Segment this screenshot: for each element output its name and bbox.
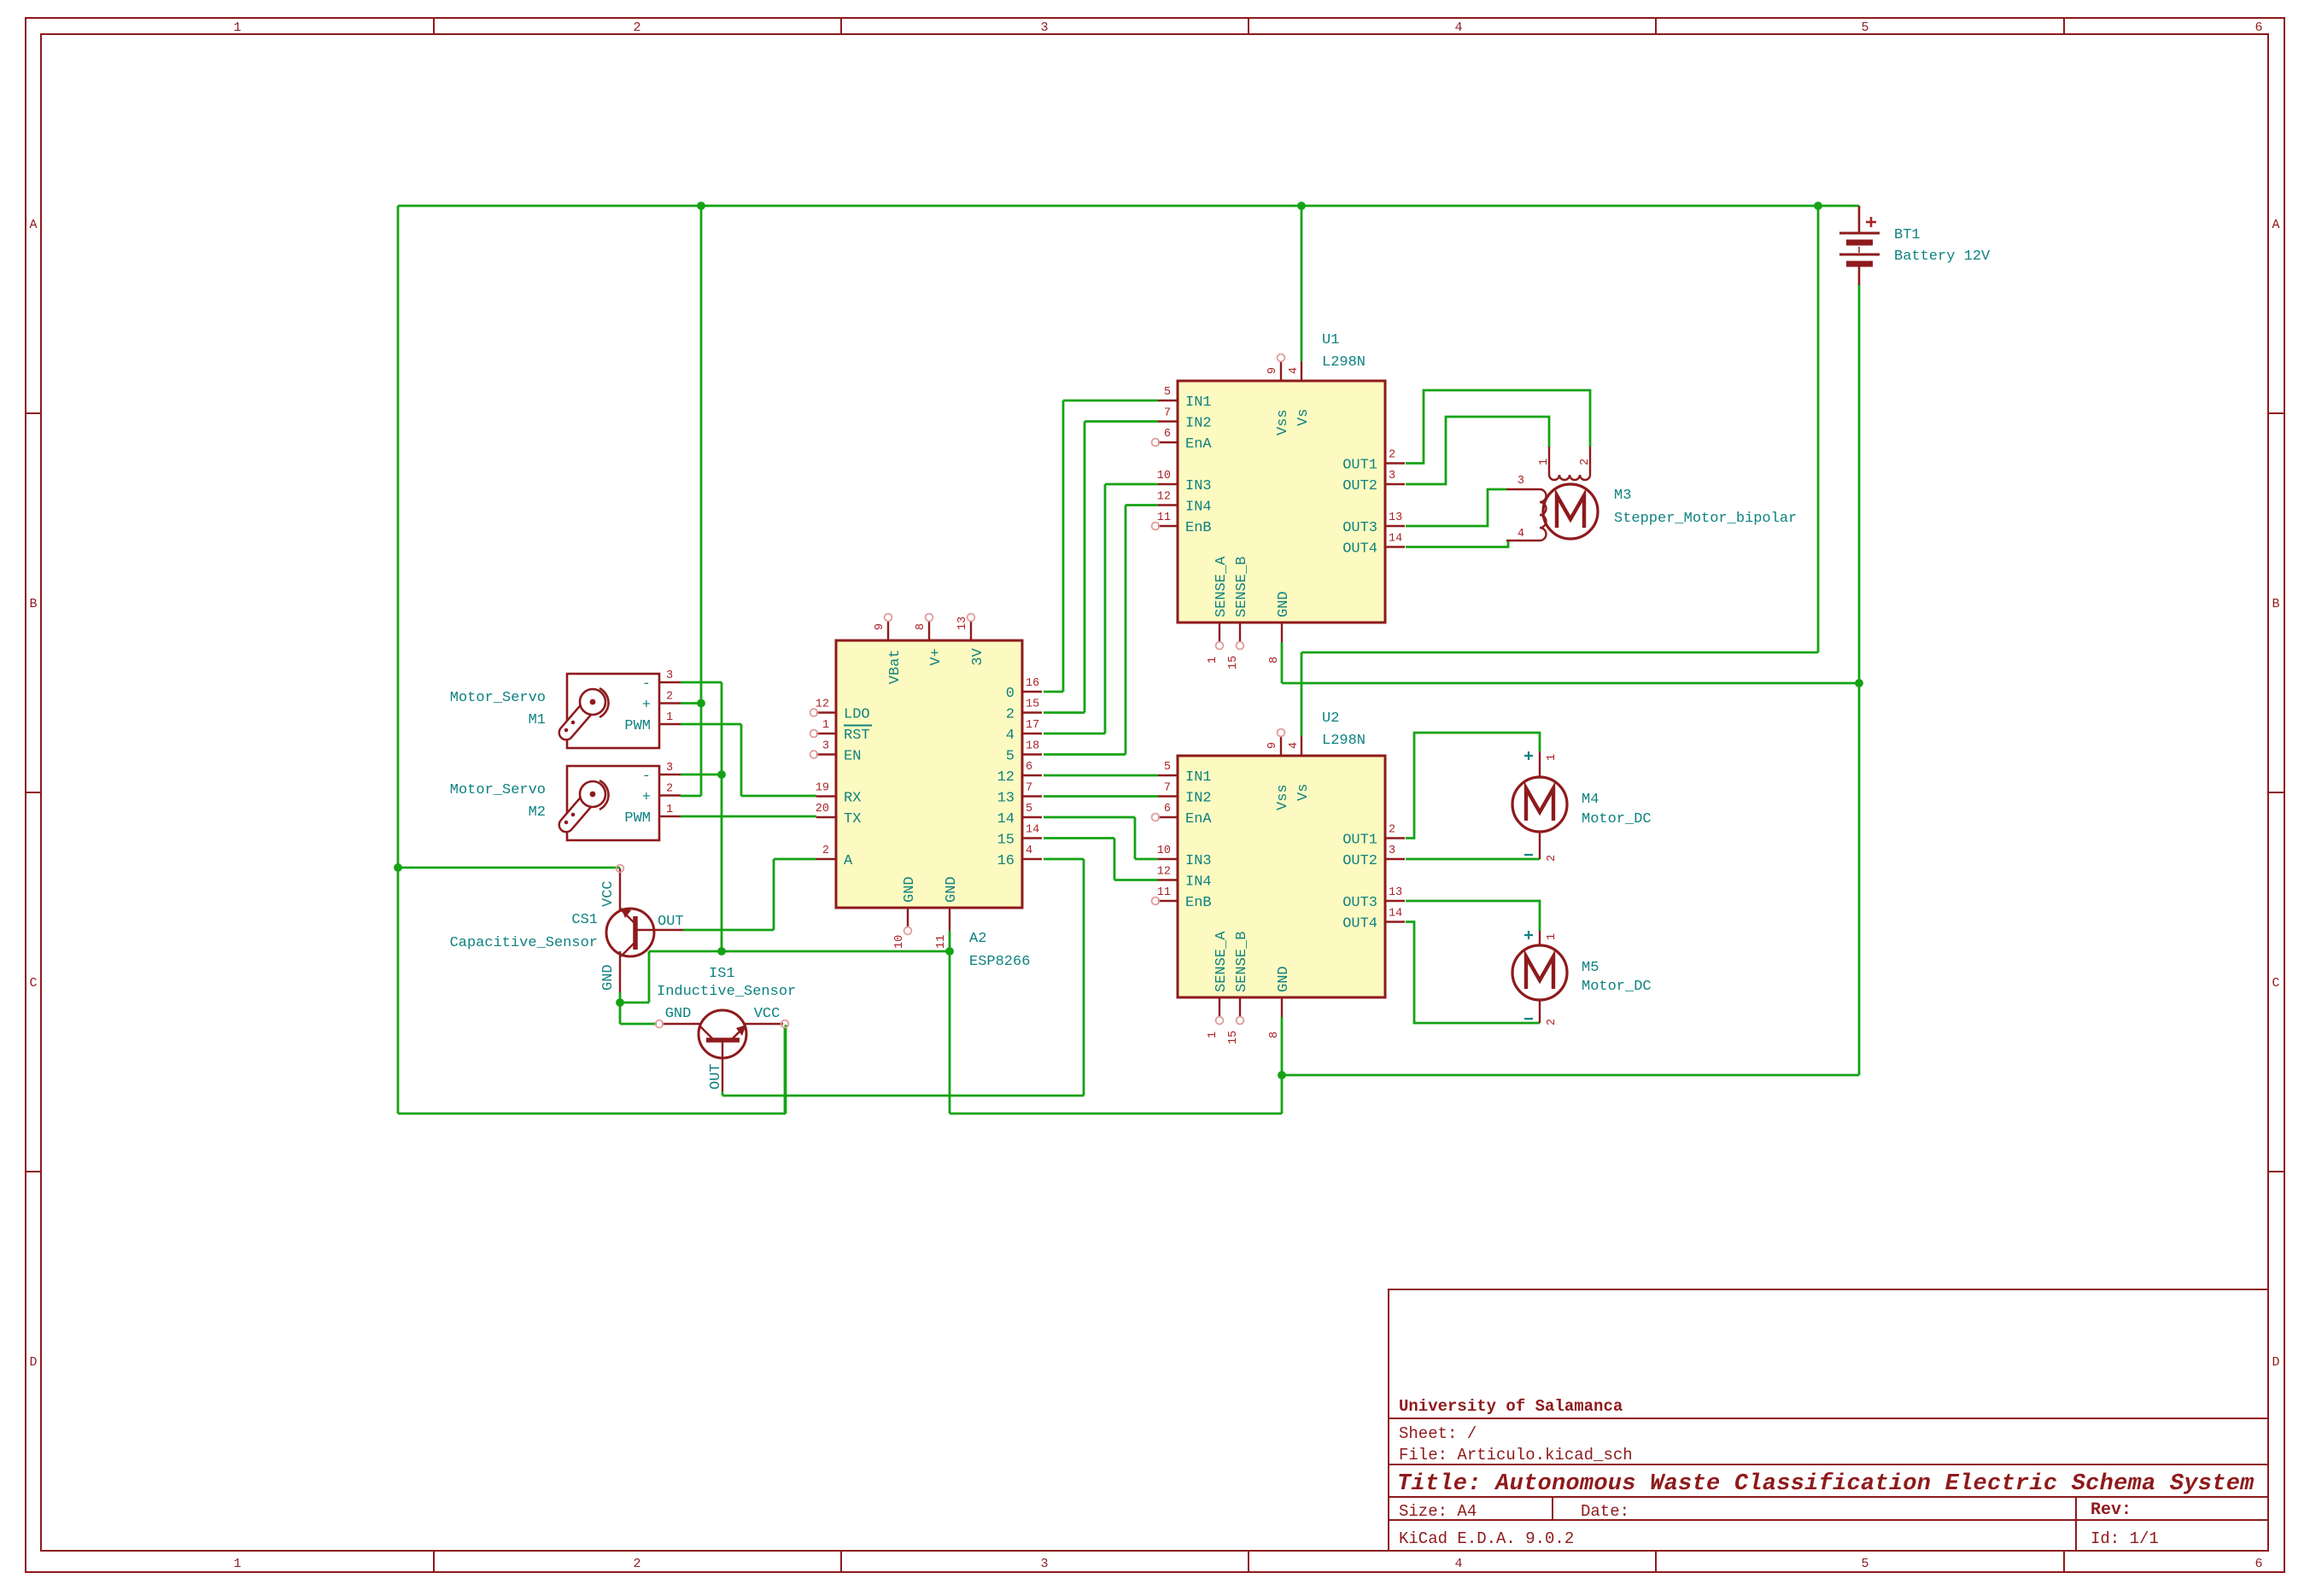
svg-text:L298N: L298N [1322, 733, 1366, 749]
frame column tick top [840, 18, 842, 34]
IS1 arrow [736, 1025, 746, 1036]
svg-text:6: 6 [1026, 761, 1032, 774]
U2 pin 7 IN2 stub [1158, 795, 1178, 797]
svg-text:Capacitive_Sensor: Capacitive_Sensor [450, 935, 598, 951]
IS1 GND pin [662, 1023, 700, 1025]
svg-text:GND: GND [1276, 966, 1292, 992]
CS1 GND pin [619, 951, 621, 992]
A2 pin 9 VBat stub [887, 621, 889, 640]
svg-text:+: + [642, 790, 651, 806]
svg-text:IS1: IS1 [709, 966, 735, 982]
battery BT1 plate long 2 [1839, 254, 1880, 256]
svg-text:OUT3: OUT3 [1342, 520, 1377, 536]
svg-text:Motor_Servo: Motor_Servo [450, 690, 546, 706]
servo M1 horn arm [566, 702, 593, 733]
U1 pin 1 SENSE_A stub [1219, 623, 1220, 642]
A2 pin 18 GPIO5 stub [1022, 753, 1042, 755]
A2 pin 8 V+ stub [928, 621, 930, 640]
A2 pin 7 GPIO13 stub [1022, 795, 1042, 797]
U2 pin 4 Vs stub [1301, 736, 1302, 756]
wire M2 pin2 to VCC [681, 795, 701, 798]
svg-text:V+: V+ [928, 648, 944, 665]
svg-text:L298N: L298N [1322, 354, 1366, 371]
battery BT1 plate short 2 [1846, 261, 1873, 267]
CS1 VCC pin [619, 868, 621, 910]
wire ESP GND riser [949, 931, 951, 1114]
frame column tick top [433, 18, 435, 34]
wire U2 OUT4 to M5 minus a [1406, 922, 1540, 1024]
U2 pin 6 EnA stub [1158, 816, 1178, 818]
wire M2 PWM to ESP TX [681, 816, 816, 818]
CS1 arrow [621, 908, 631, 918]
IS1 right diagonal [731, 1026, 746, 1040]
svg-text:CS1: CS1 [571, 912, 598, 928]
U1 pin 8 GND stub [1281, 623, 1283, 642]
svg-text:OUT1: OUT1 [1342, 833, 1377, 849]
svg-text:GND: GND [944, 876, 960, 903]
title block separator under file [1389, 1464, 2268, 1465]
wire ESP GPIO14 to U2 IN3 a [1044, 816, 1135, 819]
svg-text:5: 5 [1006, 749, 1015, 765]
title block separator under title [1389, 1496, 2268, 1498]
svg-text:OUT2: OUT2 [1342, 853, 1377, 869]
battery BT1 positive stub [1858, 206, 1861, 232]
U1 pin 7 IN2 stub [1158, 420, 1178, 422]
U1 pin EnA unconnected end [1152, 439, 1160, 447]
svg-text:13: 13 [997, 791, 1015, 807]
svg-text:SENSE_A: SENSE_A [1213, 931, 1230, 992]
wire U2 Vs horizontal [1301, 652, 1818, 654]
wire IS1 VCC drop [784, 1028, 787, 1114]
A2 pin 9 unconnected end [885, 614, 892, 622]
A2 pin 13 unconnected end [968, 614, 975, 622]
svg-text:RX: RX [844, 791, 861, 807]
servo M1 horn hole 1 [564, 728, 569, 733]
svg-text:2: 2 [1389, 449, 1395, 462]
wire battery negative vertical [1858, 285, 1861, 1075]
svg-text:U2: U2 [1322, 710, 1339, 727]
wire U2 GND branch to battery negative [1282, 1074, 1859, 1077]
svg-text:3: 3 [666, 669, 673, 682]
junction ESP GND / GND rail [945, 947, 954, 956]
wire CS1 OUT horizontal [683, 929, 774, 932]
svg-text:9: 9 [1266, 742, 1279, 749]
wire VCC riser to IS1 [785, 1025, 787, 1114]
svg-text:SENSE_B: SENSE_B [1234, 557, 1250, 617]
frame row tick left [26, 792, 41, 793]
wire ESP GPIO5 to U1 IN4 b [1125, 506, 1127, 755]
motor M5 minus sign [1524, 1018, 1533, 1020]
servo M2 horn crescent [599, 780, 609, 810]
U2 pin 11 EnB stub [1158, 900, 1178, 902]
svg-text:0: 0 [1006, 686, 1015, 702]
svg-text:Battery 12V: Battery 12V [1894, 248, 1991, 265]
svg-text:VCC: VCC [754, 1006, 781, 1022]
svg-text:2: 2 [1546, 855, 1559, 862]
svg-text:ESP8266: ESP8266 [969, 954, 1030, 970]
wire CS1 OUT to ESP A [774, 858, 816, 861]
svg-text:1: 1 [233, 20, 241, 35]
CS1 base bar [633, 916, 638, 950]
svg-text:GND: GND [902, 876, 918, 903]
svg-text:12: 12 [816, 699, 829, 711]
svg-text:5: 5 [1164, 761, 1171, 774]
svg-text:TX: TX [844, 811, 861, 827]
U2 pin 1 SENSE_A stub [1219, 997, 1220, 1017]
motor M5 circle [1512, 945, 1567, 1000]
svg-text:10: 10 [1157, 470, 1171, 482]
U1 pin 3 OUT2 stub [1385, 483, 1405, 485]
svg-text:5: 5 [1861, 1557, 1868, 1571]
svg-text:3: 3 [822, 740, 829, 753]
svg-text:13: 13 [1389, 512, 1402, 524]
junction U1 Vs / top rail [1297, 202, 1306, 210]
A2 pin 19 RX stub [816, 795, 836, 797]
wire ESP GPIO5 to U1 IN4 c [1126, 504, 1158, 506]
stepper M3 coil B line 4 [1506, 540, 1540, 541]
svg-text:VBat: VBat [887, 649, 904, 684]
svg-text:M1: M1 [529, 712, 546, 728]
frame column tick bottom [433, 1551, 435, 1572]
battery BT1 plate short 1 [1846, 240, 1873, 246]
svg-text:17: 17 [1026, 719, 1039, 732]
svg-text:A: A [29, 218, 37, 232]
svg-text:LDO: LDO [844, 707, 870, 723]
battery BT1 negative stub [1858, 266, 1861, 285]
svg-text:9: 9 [1266, 367, 1279, 374]
svg-text:PWM: PWM [624, 718, 651, 734]
title block separator under size/date [1389, 1519, 2268, 1521]
frame column tick top [1248, 18, 1249, 34]
wire ESP GPIO5 to U1 IN4 a [1044, 753, 1126, 756]
svg-text:RST: RST [844, 728, 870, 744]
svg-text:A2: A2 [969, 931, 986, 947]
driver U2 L298N body [1178, 756, 1385, 997]
stepper M3 coil A line 2 [1589, 447, 1591, 475]
motor M4 minus sign [1524, 854, 1533, 856]
motor M4 circle [1512, 777, 1567, 832]
svg-text:University of Salamanca: University of Salamanca [1399, 1397, 1623, 1416]
junction CS1 GND [616, 998, 624, 1007]
wire U2 GND drop [1281, 1017, 1284, 1114]
servo M2 pin 1 stub [659, 816, 681, 817]
svg-text:IN4: IN4 [1185, 874, 1212, 891]
svg-text:IN3: IN3 [1185, 853, 1212, 869]
svg-text:C: C [29, 976, 37, 991]
U1 pin 9 Vss stub [1280, 361, 1282, 381]
servo M2 horn hole 2 [571, 813, 576, 817]
wire U1 OUT4 to M3 pin4 [1406, 541, 1508, 547]
svg-text:2: 2 [1546, 1019, 1559, 1026]
svg-text:2: 2 [1579, 459, 1592, 465]
A2 pin 2 A stub [816, 858, 836, 860]
U2 pin 10 IN3 stub [1158, 858, 1178, 860]
title block separator under company [1389, 1418, 2268, 1419]
junction M2 minus [717, 770, 726, 779]
frame column tick top [2063, 18, 2065, 34]
A2 pin 10 unconnected end [904, 927, 912, 935]
junction U1 GND / battery negative [1855, 679, 1863, 687]
wire ESP GPIO0 to U1 IN1 b [1062, 400, 1065, 692]
wire U1 OUT2 to M3 coil1 a [1406, 417, 1549, 484]
U2 pin 9 unconnected end [1278, 729, 1285, 737]
svg-text:1: 1 [1538, 459, 1551, 465]
motor M4 plus pin [1539, 751, 1541, 777]
svg-text:1: 1 [666, 711, 673, 724]
wire M1 pin3 stub [681, 681, 722, 684]
svg-text:IN2: IN2 [1185, 791, 1212, 807]
frame column tick top [1655, 18, 1657, 34]
frame row tick right [2268, 1171, 2284, 1172]
wire U1 GND drop [1281, 642, 1284, 683]
U1 pin EnB unconnected end [1152, 523, 1160, 530]
battery BT1 plus sign [1866, 221, 1876, 224]
A2 pin LDO unconnected end [810, 709, 818, 716]
wire CS1 GND link [620, 1002, 649, 1004]
svg-text:M2: M2 [529, 804, 546, 821]
U1 pin 12 IN4 stub [1158, 504, 1178, 506]
wire VBUS top rail [398, 205, 1859, 208]
wire ESP GPIO15 to U2 IN4 c [1114, 879, 1158, 881]
U2 pin 15 SENSE_B stub [1239, 997, 1241, 1017]
battery BT1 plate long 1 [1839, 232, 1880, 235]
A2 pin 4 GPIO16 stub [1022, 858, 1042, 860]
U2 pin EnB unconnected end [1152, 897, 1160, 905]
A2 pin 3 EN stub [816, 753, 836, 755]
svg-text:IN2: IN2 [1185, 416, 1212, 432]
wire M4 minus drop [1539, 858, 1541, 859]
svg-text:3: 3 [1389, 470, 1395, 482]
svg-text:Motor_Servo: Motor_Servo [450, 782, 546, 798]
wire CS1 GND down to IS1 [619, 1003, 622, 1024]
A2 pin 10 GND stub [907, 908, 909, 927]
frame column tick bottom [840, 1551, 842, 1572]
wire GND to IS1 GND pin [620, 1023, 657, 1026]
svg-text:14: 14 [997, 811, 1015, 827]
wire U1 GND to battery negative [1282, 682, 1859, 685]
stepper M3 coil A bumps [1549, 475, 1590, 480]
wire U2 OUT3 to M5 plus [1406, 901, 1540, 931]
svg-text:Vss: Vss [1275, 784, 1291, 810]
wire ESP GPIO13 to U2 IN2 [1044, 795, 1158, 798]
svg-text:3: 3 [1040, 20, 1048, 35]
svg-text:EnB: EnB [1185, 895, 1212, 911]
svg-text:4: 4 [1288, 742, 1301, 749]
svg-text:BT1: BT1 [1894, 227, 1921, 243]
wire ESP GPIO4 to U1 IN3 a [1044, 733, 1105, 735]
svg-text:7: 7 [1026, 782, 1032, 795]
svg-text:10: 10 [1157, 845, 1171, 857]
CS1 OUT pin line [635, 929, 683, 931]
frame column tick bottom [1248, 1551, 1249, 1572]
servo M1 horn hub dot [590, 699, 596, 705]
svg-text:M4: M4 [1582, 792, 1599, 808]
A2 pin 8 unconnected end [926, 614, 933, 622]
servo M1 pin 1 stub [659, 723, 681, 725]
wire U2 Vs riser right [1817, 206, 1820, 652]
A2 pin 6 GPIO12 stub [1022, 775, 1042, 776]
CS1 collector diagonal [621, 909, 635, 924]
frame row tick right [2268, 792, 2284, 793]
wire servo VCC vertical [700, 206, 703, 796]
servo M2 pin 2 stub [659, 794, 681, 796]
U2 pin 14 OUT4 stub [1385, 921, 1405, 922]
motor M5 plus pin [1539, 931, 1541, 945]
servo M1 horn crescent [599, 688, 609, 717]
IS1 base bar [706, 1038, 740, 1043]
wire ESP GPIO15 to U2 IN4 a [1044, 837, 1114, 839]
title block divider size/date [1552, 1497, 1553, 1520]
mcu A2 ESP8266 body [836, 640, 1022, 908]
servo M2 horn hole 1 [564, 821, 569, 825]
wire ESP GPIO2 to U1 IN2 b [1084, 422, 1086, 713]
svg-text:4: 4 [1026, 845, 1032, 857]
svg-text:OUT: OUT [708, 1063, 724, 1090]
wire ESP GPIO2 to U1 IN2 a [1044, 711, 1085, 714]
svg-text:A: A [2272, 218, 2279, 232]
svg-text:M5: M5 [1582, 960, 1599, 976]
svg-text:Stepper_Motor_bipolar: Stepper_Motor_bipolar [1614, 511, 1797, 527]
wire ESP GPIO16 riser [1083, 859, 1085, 1096]
svg-text:-: - [642, 769, 651, 785]
svg-text:IN3: IN3 [1185, 478, 1212, 494]
wire U1 Vs to top rail [1301, 206, 1303, 361]
U2 pin 15 unconnected end [1237, 1017, 1244, 1025]
CS1 VCC pin end [617, 865, 624, 873]
svg-text:1: 1 [666, 804, 673, 816]
svg-text:14: 14 [1026, 824, 1039, 837]
svg-text:OUT3: OUT3 [1342, 895, 1377, 911]
svg-text:3V: 3V [970, 647, 986, 665]
svg-text:5: 5 [1026, 803, 1032, 816]
svg-text:15: 15 [1227, 1031, 1240, 1044]
svg-text:4: 4 [1518, 528, 1524, 541]
svg-text:15: 15 [1026, 699, 1039, 711]
motor M5 minus pin [1539, 1000, 1541, 1023]
A2 pin 15 GPIO2 stub [1022, 711, 1042, 713]
U1 pin 14 OUT4 stub [1385, 546, 1405, 547]
IS1 VCC pin [745, 1023, 783, 1025]
svg-text:C: C [2272, 976, 2279, 991]
svg-text:9: 9 [874, 623, 886, 630]
wire GND horizontal to sensors [649, 950, 950, 953]
U1 pin 2 OUT1 stub [1385, 462, 1405, 464]
CS1 emitter diagonal [621, 942, 635, 956]
junction U2 Vs riser / top rail [1814, 202, 1822, 210]
U1 pin 1 unconnected end [1216, 642, 1224, 650]
servo M1 body [567, 674, 659, 748]
A2 pin 13 3V stub [970, 621, 972, 640]
wire servo minus vertical [721, 682, 723, 951]
svg-text:D: D [29, 1355, 37, 1370]
A2 pin 17 GPIO4 stub [1022, 733, 1042, 734]
wire ESP GPIO0 to U1 IN1 c [1063, 400, 1158, 402]
wire ESP GPIO15 to U2 IN4 b [1114, 839, 1116, 880]
svg-text:4: 4 [1454, 20, 1462, 35]
svg-text:10: 10 [893, 935, 906, 949]
svg-text:2: 2 [666, 691, 673, 704]
svg-text:11: 11 [935, 935, 948, 949]
svg-text:Title: Autonomous Waste Classi: Title: Autonomous Waste Classification E… [1397, 1471, 2254, 1497]
wire M1 PWM to ESP RX [741, 795, 816, 798]
servo M1 pin 3 stub [659, 681, 681, 683]
svg-text:2: 2 [666, 783, 673, 796]
servo M1 horn hub circle [580, 689, 605, 715]
svg-text:18: 18 [1026, 740, 1039, 753]
stepper M3 letter M [1557, 495, 1584, 528]
U1 pin 6 EnA stub [1158, 441, 1178, 443]
svg-text:19: 19 [816, 782, 829, 795]
junction M1 plus [697, 699, 705, 708]
transistor CS1 capacitive sensor circle [606, 909, 654, 956]
svg-text:11: 11 [1157, 886, 1171, 899]
motor M5 letter M [1526, 956, 1553, 989]
svg-text:4: 4 [1288, 367, 1301, 374]
svg-text:GND: GND [600, 964, 617, 991]
wire CS1 OUT riser [773, 859, 775, 930]
svg-text:14: 14 [1389, 908, 1402, 921]
motor M4 letter M [1526, 788, 1553, 821]
U2 pin 5 IN1 stub [1158, 775, 1178, 776]
svg-text:12: 12 [1157, 491, 1171, 504]
servo M2 horn hub circle [580, 781, 605, 807]
IS1 GND pin end [656, 1020, 664, 1028]
svg-text:2: 2 [633, 20, 640, 35]
stepper M3 coil B bumps [1540, 489, 1547, 541]
wire CS1 GND stub [619, 992, 622, 1003]
svg-text:6: 6 [1164, 428, 1171, 441]
svg-text:20: 20 [816, 803, 829, 816]
motor M5 plus sign [1524, 934, 1533, 936]
svg-text:GND: GND [1276, 591, 1292, 617]
svg-text:12: 12 [997, 769, 1015, 786]
svg-text:PWM: PWM [624, 810, 651, 827]
U2 pin 2 OUT1 stub [1385, 837, 1405, 839]
U1 pin 11 EnB stub [1158, 525, 1178, 527]
svg-text:Motor_DC: Motor_DC [1582, 979, 1652, 995]
wire U2 OUT2 to M4 minus [1406, 858, 1540, 861]
U1 pin 13 OUT3 stub [1385, 525, 1405, 527]
svg-text:U1: U1 [1322, 332, 1339, 348]
svg-text:16: 16 [997, 853, 1015, 869]
svg-text:3: 3 [1389, 845, 1395, 857]
svg-text:1: 1 [1207, 657, 1219, 664]
wire GND jog down [648, 951, 651, 1003]
svg-text:13: 13 [956, 617, 969, 630]
svg-text:Sheet: /: Sheet: / [1399, 1424, 1477, 1443]
svg-text:IN1: IN1 [1185, 769, 1212, 786]
U1 pin 5 IN1 stub [1158, 400, 1178, 401]
svg-text:7: 7 [1164, 782, 1171, 795]
wire ESP GPIO14 to U2 IN3 b [1134, 817, 1137, 859]
servo M1 horn hole 2 [571, 721, 576, 725]
servo M2 horn arm [566, 794, 593, 825]
svg-text:1: 1 [1207, 1032, 1219, 1038]
svg-text:8: 8 [1268, 1032, 1281, 1038]
svg-text:2: 2 [633, 1557, 640, 1571]
stepper M3 coil B line 3 [1506, 488, 1540, 490]
U1 pin 15 SENSE_B stub [1239, 623, 1241, 642]
frame row tick left [26, 412, 41, 414]
U1 pin 10 IN3 stub [1158, 483, 1178, 485]
wire M1 pin2 to VCC [681, 702, 701, 704]
U2 pin 13 OUT3 stub [1385, 900, 1405, 902]
svg-text:3: 3 [1040, 1557, 1048, 1571]
svg-text:3: 3 [1518, 475, 1524, 488]
svg-text:B: B [2272, 597, 2279, 611]
svg-text:EnA: EnA [1185, 436, 1212, 453]
svg-text:Inductive_Sensor: Inductive_Sensor [657, 984, 796, 1000]
